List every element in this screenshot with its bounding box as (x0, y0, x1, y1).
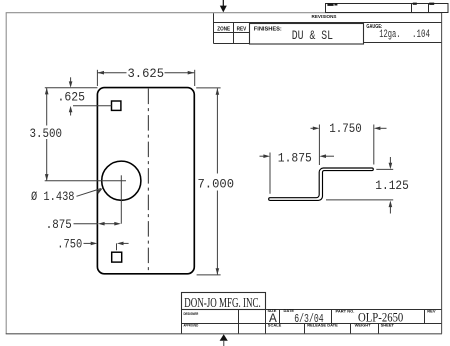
svg-text:7.000: 7.000 (198, 176, 235, 191)
svg-text:REV: REV (427, 309, 436, 314)
svg-text:1.875: 1.875 (278, 150, 312, 165)
svg-text:3.625: 3.625 (128, 66, 165, 81)
svg-text:FINISHES:: FINISHES: (254, 26, 282, 32)
svg-text:Ø 1.438: Ø 1.438 (31, 189, 75, 204)
svg-text:OLP-2650: OLP-2650 (358, 310, 403, 325)
svg-text:PART NO.: PART NO. (336, 309, 355, 314)
svg-text:1.125: 1.125 (375, 178, 409, 193)
svg-text:.625: .625 (58, 89, 86, 104)
svg-text:.750: .750 (57, 237, 82, 252)
svg-text:REVISIONS: REVISIONS (312, 14, 337, 19)
svg-text:3.500: 3.500 (30, 126, 63, 141)
svg-text:DON-JO MFG. INC.: DON-JO MFG. INC. (184, 295, 260, 310)
svg-text:.875: .875 (46, 217, 72, 232)
svg-text:6/3/04: 6/3/04 (294, 313, 323, 326)
svg-text:A: A (269, 311, 277, 326)
svg-text:12ga.: 12ga. (379, 29, 400, 41)
svg-text:DESIGNER: DESIGNER (184, 311, 199, 316)
svg-text:REV: REV (237, 26, 247, 32)
svg-text:DATE: DATE (284, 308, 295, 313)
svg-text:1.750: 1.750 (329, 121, 362, 136)
svg-text:APPROVED: APPROVED (184, 322, 199, 327)
svg-text:DU & SL: DU & SL (292, 29, 333, 43)
svg-text:ZONE: ZONE (217, 26, 230, 32)
svg-text:.104: .104 (412, 29, 430, 41)
